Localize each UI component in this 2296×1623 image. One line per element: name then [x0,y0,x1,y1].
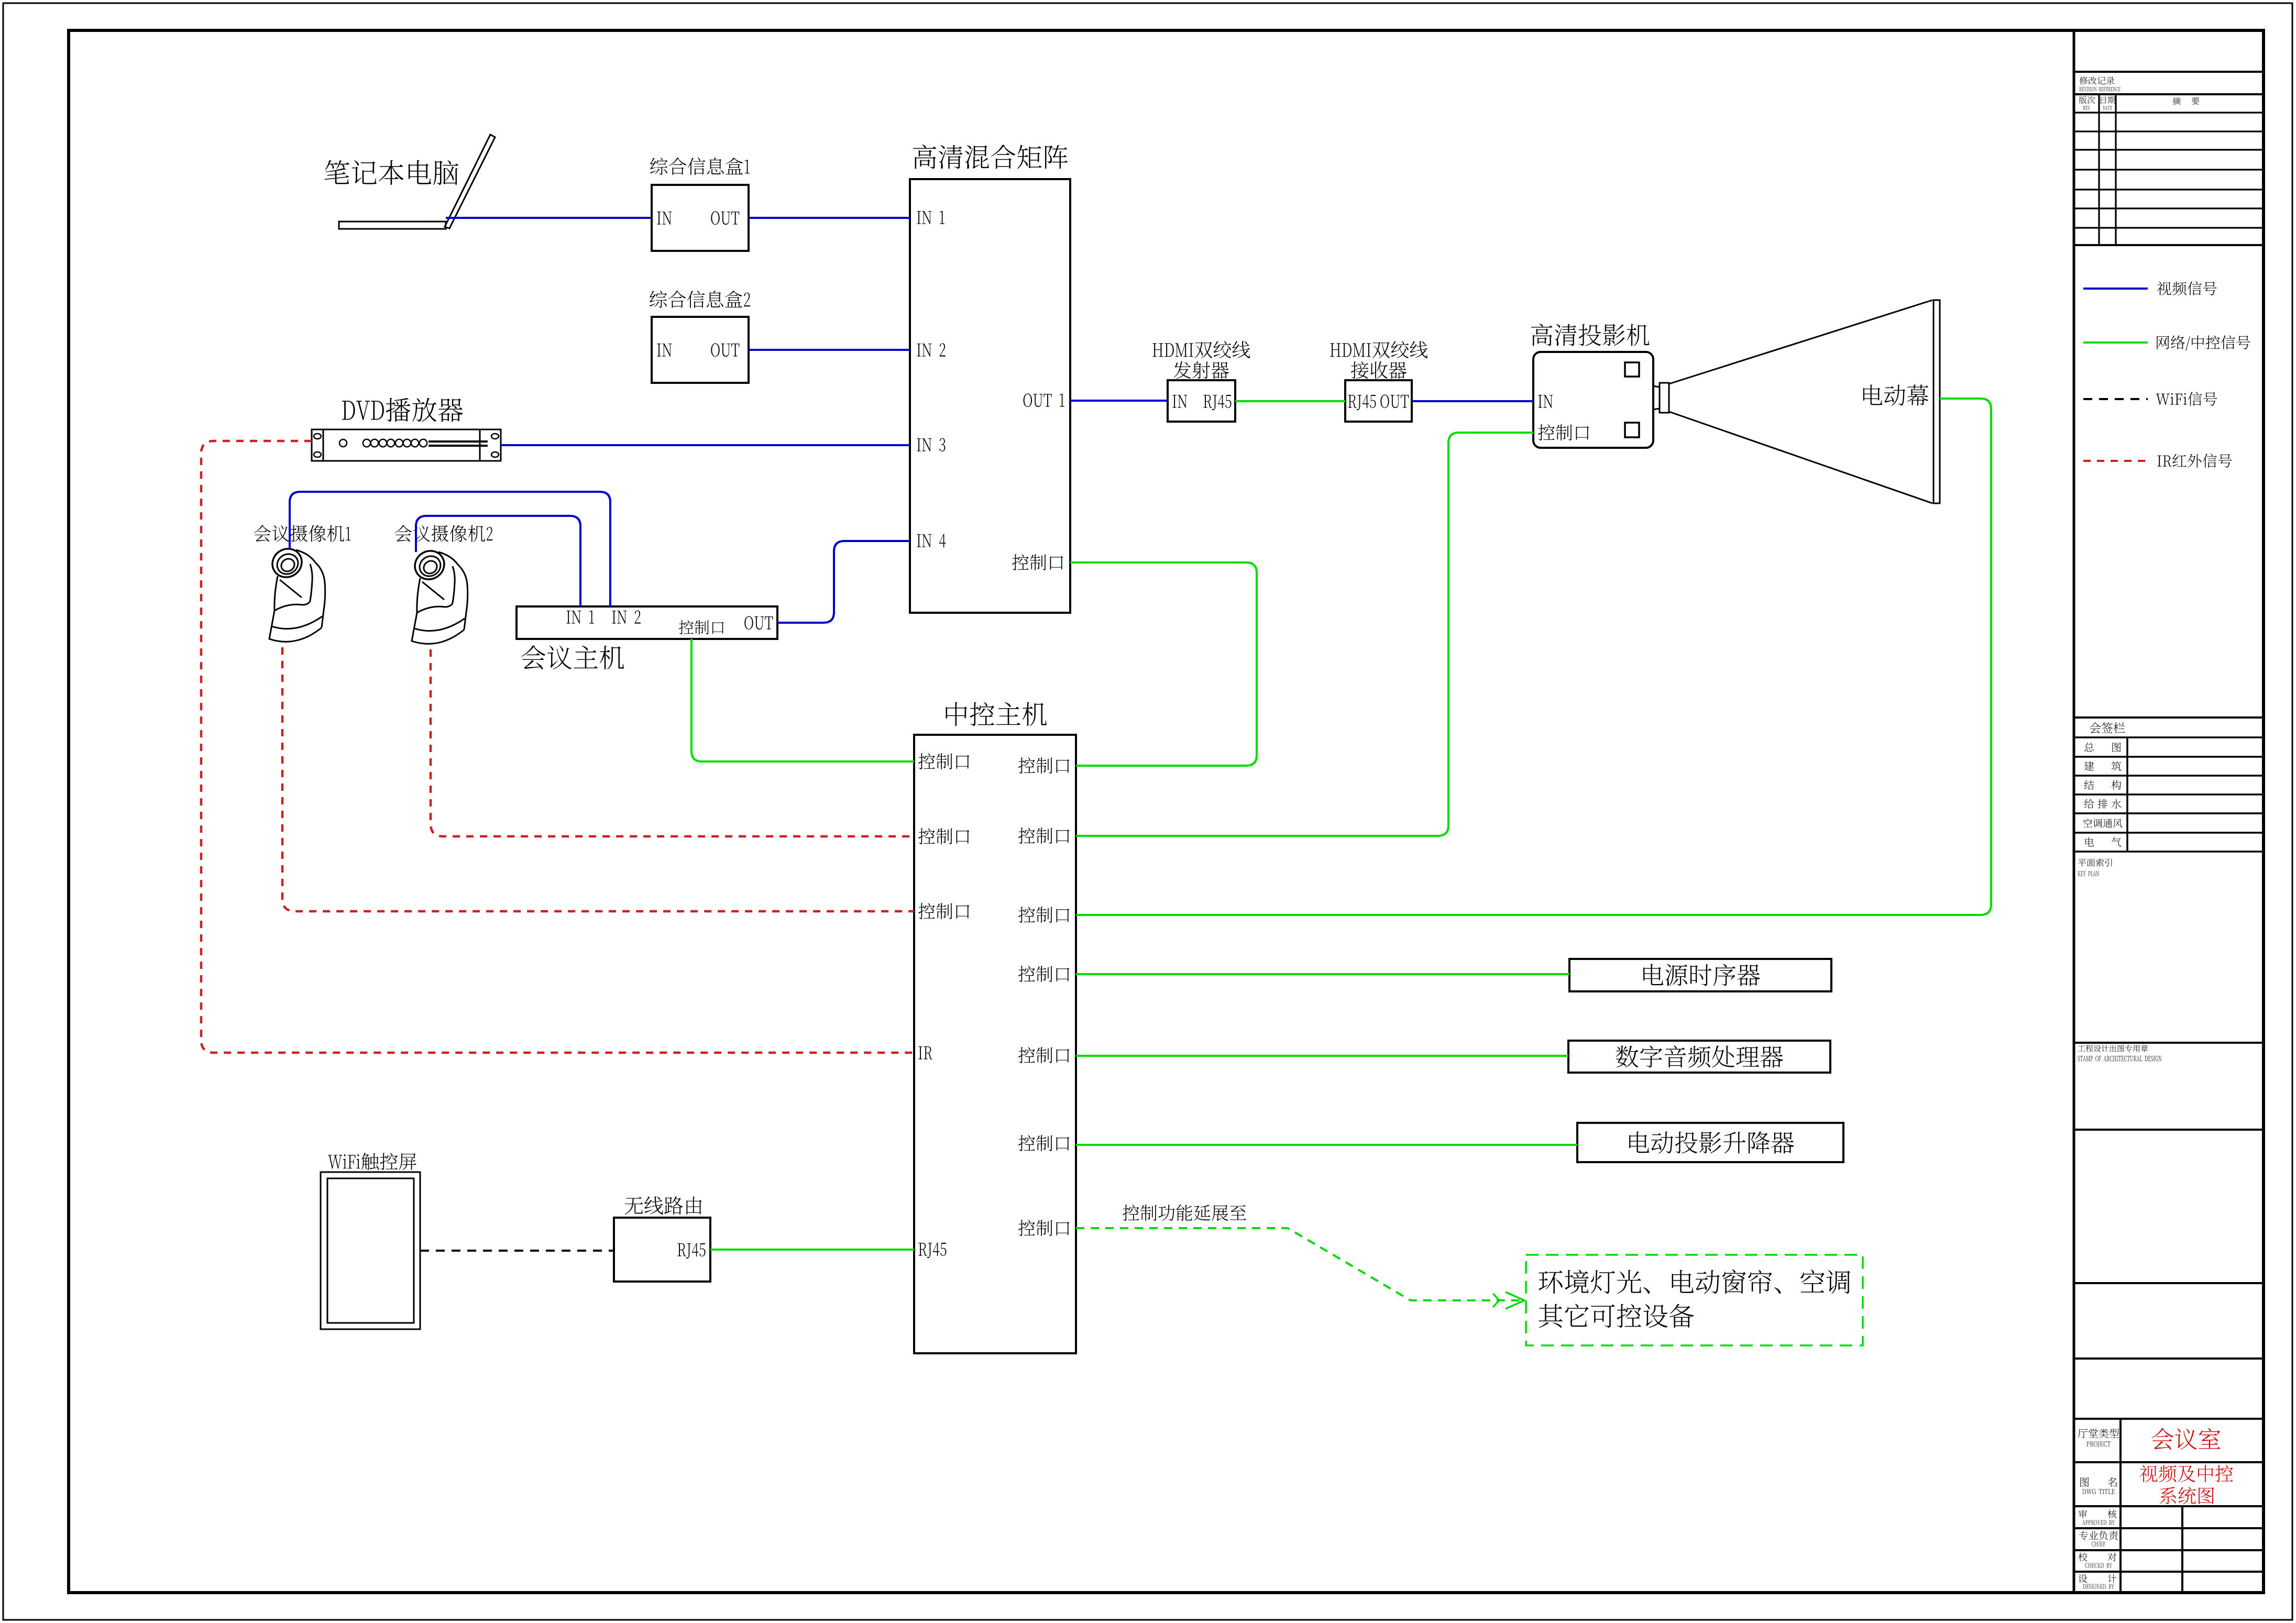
revision col line 1 [2098,94,2100,245]
dashed box 环境灯光 [1526,1255,1863,1345]
empty row line2 [2074,1357,2264,1360]
box projector [1533,352,1653,448]
touchscreen outer [321,1172,420,1329]
red 系统图 [2160,1487,2214,1504]
ctrl right 控制口 [1018,1047,1069,1063]
label 发射器 [1173,361,1229,379]
wire DVD IR to CCU [201,441,914,1053]
label 电动投影升降器 [1629,1131,1794,1154]
revision row line [2074,149,2264,150]
wire screen to CCU [1076,399,1991,915]
revision header bottom [2074,112,2264,113]
wire CCU to 电动投影升降器 [1076,1144,1577,1146]
revision row line [2074,189,2264,190]
label 会议主机 [521,646,624,670]
label 版次 [2079,96,2095,104]
project col line [2119,1419,2122,1593]
box 会议主机 [517,606,777,639]
label PROJECT [2086,1441,2111,1447]
wire camera1 to host IN2 [290,492,610,606]
label 会议摄像机2 [395,525,493,542]
wire box1 to matrix IN1 [749,217,910,219]
label DATE [2103,106,2112,110]
revision row line [2074,227,2264,228]
box 高清混合矩阵 [910,179,1070,613]
label HDMI双绞线 RX [1330,341,1427,358]
label REV. [2083,106,2091,110]
legend IR line [2083,460,2148,462]
label 日期 [2101,96,2115,104]
label DWG TITLE [2082,1489,2114,1494]
matrix OUT 1 [1024,393,1064,407]
box 数字音频处理器 [1568,1041,1830,1073]
red 会议室 [2151,1428,2220,1450]
legend video line [2083,288,2148,290]
box2 OUT [711,343,739,357]
label WiFi触控屏 [328,1153,416,1170]
revision header line [2074,93,2264,95]
empty row line [2074,1282,2264,1284]
wire CCU to 数字音频处理器 [1076,1055,1568,1057]
keyplan bottom [2074,1042,2264,1044]
camera icon 会议摄像机1 [267,543,325,642]
revision table top cell line [2074,71,2264,73]
wire camera2 to host IN1 [416,516,580,606]
box2 IN [657,344,672,357]
label 中控主机 [946,702,1047,726]
approve col line2 [2181,1506,2183,1593]
legend wifi line [2083,398,2148,400]
legend IR红外信号 [2157,454,2232,468]
signoff row line [2074,851,2264,853]
box1 IN [657,212,672,225]
signoff row line [2074,736,2264,738]
label 会议摄像机1 [254,525,351,542]
label KEY PLAN [2078,871,2099,876]
label 高清混合矩阵 [913,145,1068,169]
label 工程设计出图专用章 [2078,1045,2148,1052]
label 无线路由 [624,1196,701,1215]
signoff top [2074,716,2264,719]
matrix IN 4 [917,534,946,548]
label DVD播放器 [342,398,463,422]
title block left edge [2073,30,2075,1593]
label 笔记本电脑 [324,160,458,185]
box HDMI RX [1345,380,1412,422]
ctrl left RJ45 [918,1243,946,1258]
box1 OUT [711,211,739,225]
box HDMI TX [1168,380,1235,422]
box 综合信息盒2 [652,317,749,383]
label 修改记录 [2080,76,2115,85]
label HDMI双绞线 TX [1152,341,1250,358]
box 电源时序器 [1569,959,1831,991]
matrix IN 1 [917,211,944,224]
projector square top [1625,362,1639,377]
label CHECKD BY [2085,1563,2112,1568]
wire host ctrl to CCU [691,639,914,761]
wire touchscreen to router WiFi [420,1250,614,1252]
revision row line [2074,169,2264,170]
ctrl right 控制口 [1018,1135,1069,1151]
signoff row line [2074,832,2264,834]
matrix IN 3 [917,438,945,451]
box 综合信息盒1 [652,185,749,251]
ctrl right 控制口 [1018,1220,1069,1236]
signoff row line [2074,812,2264,814]
wire RX to projector IN [1412,400,1533,402]
wire DVD to matrix IN3 [501,444,910,446]
label 专业负责 [2079,1531,2118,1540]
host IN 2 [612,610,640,623]
wire matrix ctrl to CCU [1070,562,1257,766]
label STAMP [2078,1056,2161,1062]
RX OUT [1380,394,1409,408]
approve row top [2074,1505,2264,1507]
TX IN [1172,395,1187,408]
ctrl right 控制口 [1018,907,1069,923]
red 视频及中控 [2140,1465,2233,1482]
label 会签栏 [2090,722,2125,733]
signoff row line [2074,756,2264,758]
ctrl left IR [918,1046,932,1059]
label 接收器 [1351,361,1407,379]
label APPROVED BY [2082,1520,2115,1525]
label 要 [2192,97,2200,105]
wire box2 to matrix IN2 [749,349,910,351]
projector square bottom [1625,423,1639,437]
label 数字音频处理器 [1616,1045,1783,1068]
ctrl right 控制口 [1018,827,1069,844]
staff row line [2074,1549,2264,1551]
router RJ45 [677,1243,705,1259]
wire projector ctrl to CCU [1076,433,1533,836]
label 综合信息盒2 [650,291,750,308]
projection cone [1669,300,1932,384]
TX RJ45 [1203,395,1231,411]
ctrl left 控制口 [918,753,969,769]
wire matrix OUT1 to TX [1070,400,1168,402]
ctrl left 控制口 [918,903,969,919]
matrix 控制口 [1012,554,1063,570]
laptop icon [339,222,446,229]
box 无线路由 [614,1218,710,1282]
ctrl right 控制口 [1018,966,1069,982]
camera icon 会议摄像机2 [410,545,468,644]
RX RJ45 [1348,395,1376,411]
legend 视频信号 [2157,281,2217,295]
label 综合信息盒1 [650,158,750,175]
label 控制功能延展至 [1123,1205,1246,1221]
wire TX to RX [1235,400,1345,402]
ctrl left 控制口 [918,828,969,844]
wire camera2 IR to CCU [431,649,914,836]
projector IN [1538,395,1553,408]
label 电动幕 [1863,384,1928,406]
wire router to CCU RJ45 [710,1249,914,1251]
project row top [2074,1418,2264,1420]
signoff row line [2074,775,2264,777]
staff row line [2074,1571,2264,1573]
box 中控主机 [914,735,1076,1353]
wire CCU to 电源时序器 [1076,973,1569,975]
text 其它可控设备 [1539,1304,1694,1328]
arrow head [1493,1292,1524,1309]
matrix IN 2 [917,343,945,356]
signoff row line [2074,793,2264,796]
legend WiFi信号 [2156,392,2217,406]
touchscreen inner [327,1178,414,1323]
staff row line [2074,1527,2264,1529]
host OUT [744,616,773,630]
DVD player icon [312,429,501,461]
label REVISION REFERENCE [2079,87,2120,91]
revision row line [2074,207,2264,209]
wire CCU dashed to devices [1076,1228,1522,1300]
wire laptop to box1 [446,217,652,219]
projector lens [1653,386,1660,387]
label DESIGNED BY [2083,1584,2114,1589]
label 平面索引 [2078,858,2112,866]
signoff col line [2126,737,2128,852]
projector 控制口 [1538,424,1589,440]
ctrl right 控制口 [1018,757,1069,774]
label 电源时序器 [1643,964,1760,986]
revision table bottom [2074,244,2264,246]
legend network line [2083,341,2148,344]
wire host OUT to matrix IN4 [777,541,910,623]
revision row line [2074,130,2264,132]
wire camera1 IR to CCU [282,647,914,911]
box 电动投影升降器 [1577,1123,1843,1162]
stamp bottom [2074,1129,2264,1131]
revision col line 2 [2115,94,2116,245]
screen 电动幕 [1934,300,1940,503]
dwg row top [2074,1461,2264,1463]
label CHIEF [2092,1542,2105,1547]
label 摘 [2172,97,2180,105]
text 环境灯光、电动窗帘、空调 [1539,1269,1850,1294]
host IN 1 [566,611,594,624]
legend 网络/中控信号 [2157,335,2250,351]
label 高清投影机 [1531,324,1650,346]
host 控制口 [679,620,724,634]
